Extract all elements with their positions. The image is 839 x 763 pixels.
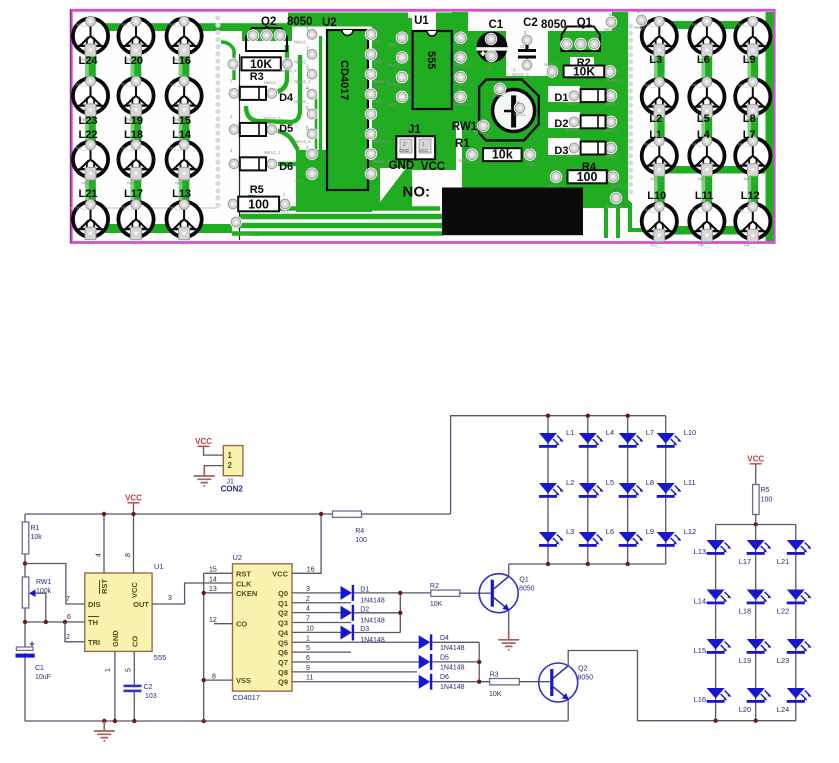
wire: matrix L1-L12 column lines: [547, 416, 549, 564]
svg-text:CLK: CLK: [236, 579, 252, 588]
svg-text:4: 4: [396, 89, 399, 95]
svg-text:1N4148: 1N4148: [360, 617, 385, 624]
svg-text:Q2: Q2: [261, 16, 276, 28]
wire: TH line: [25, 621, 85, 623]
svg-text:10: 10: [376, 146, 382, 152]
svg-text:NetC1: NetC1: [514, 112, 527, 117]
wire: D3 out: [354, 632, 400, 634]
power VCC symbol (R5): [747, 455, 764, 468]
wire: PCB bottom horizontal green trace right grid: [650, 226, 770, 235]
wire: D2 out: [354, 612, 400, 614]
node: matrix top rail junctions: [546, 414, 550, 418]
wire: right matrix anode rail: [716, 524, 796, 526]
svg-text:NetU2_: NetU2_: [294, 99, 309, 104]
svg-text:8050: 8050: [578, 675, 594, 682]
pad U1 pin 6: [454, 71, 466, 83]
svg-text:2: 2: [66, 634, 70, 641]
svg-text:D6: D6: [279, 161, 293, 173]
svg-text:2: 2: [396, 49, 399, 55]
svg-text:L21: L21: [79, 188, 98, 200]
svg-text:NetU2_5: NetU2_5: [264, 116, 281, 121]
resistor R1 10k: [22, 522, 29, 554]
IC U2 CD4017: [233, 564, 293, 691]
resistor R2 10K: [431, 590, 460, 596]
svg-text:R5: R5: [761, 487, 770, 494]
pad U2 pin 1: [306, 28, 318, 40]
svg-text:NetU2_3: NetU2_3: [294, 79, 311, 84]
pad NetR4_2 lower: [610, 192, 622, 204]
LED L24 (PCB footprint): [73, 16, 108, 62]
wire: U2 Q7 pin6: [292, 661, 419, 663]
svg-text:6: 6: [306, 126, 309, 132]
diode D3 (PCB): [568, 142, 580, 154]
wire: U2 Q2 pin4: [292, 612, 341, 614]
svg-text:1: 1: [306, 635, 310, 642]
connector J1 CON2: [223, 446, 243, 476]
svg-text:D5: D5: [279, 123, 293, 135]
wire: PCB green column trace R-grid col1: [654, 25, 665, 221]
svg-text:1: 1: [105, 668, 112, 672]
svg-text:L4: L4: [697, 129, 711, 141]
svg-text:9: 9: [306, 665, 310, 672]
wire: matrix L13-L24 column lines: [715, 525, 717, 721]
svg-text:GND: GND: [373, 59, 382, 64]
svg-text:L18: L18: [124, 129, 143, 141]
svg-text:NetU1_5: NetU1_5: [512, 72, 529, 77]
wire: VCC top rail: [25, 513, 451, 515]
svg-text:Q4: Q4: [278, 628, 289, 637]
wire: R5 to matrix top rail: [755, 515, 757, 525]
LED L16 (PCB footprint): [167, 16, 202, 62]
LED L8: [619, 483, 644, 498]
svg-text:NetC1: NetC1: [492, 93, 505, 98]
power VCC symbol (J1): [195, 437, 212, 450]
svg-text:L16: L16: [172, 55, 191, 67]
svg-text:NetR4_2: NetR4_2: [610, 184, 627, 189]
via dotted column between middle and right grid: [628, 23, 633, 28]
svg-text:6: 6: [67, 614, 71, 621]
svg-text:VCC: VCC: [421, 161, 445, 173]
wire: PCB green column trace L-grid col2: [131, 27, 142, 219]
LED L19 (PCB footprint): [118, 76, 153, 122]
svg-text:TH: TH: [88, 618, 98, 627]
pad U2 pin 9: [365, 168, 377, 180]
svg-text:L23: L23: [777, 656, 790, 665]
svg-text:L16: L16: [694, 695, 707, 704]
svg-text:10K: 10K: [489, 691, 502, 698]
svg-text:4: 4: [306, 86, 309, 92]
svg-text:L17: L17: [124, 188, 143, 200]
svg-text:NetD_2: NetD_2: [605, 154, 620, 159]
wire: R3 to Q2 base: [519, 681, 550, 683]
svg-text:R3: R3: [490, 672, 499, 679]
wire: green traces between diodes and U2: [268, 45, 287, 93]
svg-text:GND: GND: [399, 148, 409, 153]
wire: RST pin4 riser: [103, 514, 105, 573]
transistor Q2 8050: [539, 663, 578, 702]
via dotted column between left grid and middle: [215, 15, 220, 20]
wire: PCB green column trace L-grid col1: [85, 27, 96, 219]
svg-text:D4: D4: [440, 635, 449, 642]
svg-text:100: 100: [761, 497, 773, 504]
pad U2 pin 14: [365, 68, 377, 80]
svg-text:5: 5: [306, 645, 310, 652]
resistor R5 100: [755, 467, 757, 485]
wire VCC to J1 pin1: [204, 450, 224, 456]
wire: Q2 collector to right matrix cathode rail: [568, 651, 796, 721]
svg-text:1N4148: 1N4148: [440, 664, 465, 671]
diode D5 (PCB): [228, 123, 240, 135]
LED L18 (PCB footprint): [118, 140, 153, 186]
copper plane: U2 pads/traces region: [372, 18, 412, 210]
svg-text:11: 11: [376, 126, 381, 132]
svg-text:15: 15: [376, 46, 382, 52]
svg-text:L9: L9: [743, 54, 756, 66]
svg-text:NetD_2: NetD_2: [605, 128, 620, 133]
svg-text:Q0: Q0: [278, 589, 288, 598]
svg-text:NetU2_1: NetU2_1: [264, 150, 281, 155]
svg-text:5: 5: [126, 668, 133, 672]
LED L3 (PCB footprint): [642, 16, 677, 62]
svg-text:L13: L13: [172, 188, 191, 200]
svg-text:L3: L3: [649, 54, 662, 66]
black redacted rectangle: [442, 188, 583, 236]
wire: D6 out to R3: [432, 681, 489, 683]
svg-text:U2: U2: [233, 553, 243, 562]
LED L7: [619, 433, 644, 448]
svg-text:D6: D6: [440, 674, 449, 681]
svg-text:CO: CO: [131, 636, 140, 647]
svg-text:L14: L14: [172, 129, 192, 141]
svg-text:8: 8: [125, 553, 132, 557]
copper plane: top strip above U2: [288, 13, 408, 27]
svg-text:L24: L24: [777, 705, 790, 714]
diode D4 (PCB): [228, 87, 240, 99]
pad U2 pin 6: [306, 128, 318, 140]
svg-text:100: 100: [577, 170, 598, 184]
pad U1 pin 1: [396, 32, 408, 44]
LED L5 (PCB footprint): [689, 77, 724, 123]
white island Q1 label: [556, 14, 608, 30]
LED L17: [747, 540, 772, 555]
diode D6 (PCB): [228, 158, 240, 170]
LED L2 (PCB footprint): [642, 77, 677, 123]
svg-text:7: 7: [456, 49, 459, 55]
svg-text:7: 7: [66, 596, 70, 603]
svg-text:100k: 100k: [36, 588, 52, 595]
resistor R3 (PCB) 10K: [227, 58, 239, 70]
wire: RW1 wiper to TH node: [36, 593, 46, 622]
svg-text:CD4017: CD4017: [338, 60, 350, 100]
svg-text:VCC: VCC: [281, 209, 290, 214]
svg-text:6: 6: [456, 69, 459, 75]
pad U2 pin 11: [365, 128, 377, 140]
wire: Q1 collector rail (matrix bottom): [509, 563, 666, 565]
diode D6 1N4148: [419, 674, 433, 690]
LED L8 (PCB footprint): [735, 77, 770, 123]
svg-text:CD4017: CD4017: [233, 693, 261, 702]
svg-text:3: 3: [396, 69, 399, 75]
svg-text:8: 8: [212, 673, 216, 680]
wire J1 pin2 to ground: [204, 466, 223, 476]
svg-text:L8: L8: [646, 478, 654, 487]
wire: PCB top horizontal green trace (left grid to Q2): [84, 23, 290, 31]
transistor Q2 (PCB footprint): [242, 24, 292, 41]
copper plane: Q1 R2 D1-D3 R4 column: [545, 12, 628, 208]
wire: PCB green column trace R-grid col3: [748, 25, 759, 221]
svg-text:L13: L13: [694, 547, 707, 556]
svg-text:7: 7: [306, 146, 309, 152]
svg-text:VSS: VSS: [236, 676, 251, 685]
diode D2 1N4148: [341, 605, 355, 621]
svg-text:10k: 10k: [31, 534, 43, 541]
LED L15 (PCB footprint): [167, 76, 202, 122]
svg-text:U2: U2: [322, 17, 337, 29]
wire: bottom fan traces to bottom bus: [240, 214, 443, 220]
transistor Q1 8050: [479, 574, 518, 613]
wire: U2 Q9 pin11: [292, 681, 419, 683]
svg-text:NetU2_: NetU2_: [566, 101, 581, 106]
diode D2 (PCB): [568, 116, 580, 128]
svg-text:Q1: Q1: [278, 599, 288, 608]
svg-text:R3: R3: [250, 71, 264, 83]
copper plane: J1 region: [384, 108, 456, 170]
svg-text:D4: D4: [279, 92, 294, 104]
resistor R3 10K: [490, 679, 520, 685]
node: R1 bottom junction: [23, 561, 27, 565]
svg-text:4: 4: [306, 606, 310, 613]
LED L22 (PCB footprint): [73, 140, 108, 186]
svg-text:U1: U1: [414, 15, 429, 27]
svg-text:10K: 10K: [250, 57, 272, 71]
pad U2 pin 8: [306, 168, 318, 180]
svg-text:R2: R2: [430, 583, 439, 590]
wire: GND pin1: [114, 651, 116, 721]
copper plane: top strip right of U1 label: [436, 13, 468, 31]
svg-text:C2: C2: [144, 684, 153, 691]
pad U1 pin 3: [396, 71, 408, 83]
wire: D4 out: [432, 641, 479, 643]
svg-text:8: 8: [306, 166, 309, 172]
wire: U2 Q4 pin10: [292, 631, 341, 633]
svg-text:VCC: VCC: [455, 43, 464, 48]
svg-text:100: 100: [248, 198, 269, 212]
LED L20 (PCB footprint): [118, 16, 153, 62]
LED L21: [787, 540, 812, 555]
svg-text:VCC: VCC: [419, 148, 428, 153]
svg-text:Q2: Q2: [578, 666, 587, 673]
svg-text:Q1: Q1: [519, 577, 528, 584]
pad U1 pin 8: [454, 32, 466, 44]
wire: U2 CKEN pin13: [204, 592, 233, 594]
diode D1 (PCB): [568, 89, 580, 101]
capacitor C1 10uF electrolytic: [30, 642, 35, 647]
svg-text:L7: L7: [646, 428, 654, 437]
potentiometer RW1 (PCB footprint): [479, 80, 539, 141]
wire: D4-D6 merge vertical: [478, 642, 480, 681]
LED L14 (PCB footprint): [167, 140, 202, 186]
op-amp/timer U1 555: [85, 573, 152, 651]
node: right matrix bottom junctions: [713, 719, 717, 723]
LED L13 (PCB footprint): [167, 199, 202, 245]
svg-text:CON2: CON2: [221, 485, 244, 494]
wire: D1 out to R2: [354, 592, 431, 594]
svg-text:L24: L24: [79, 55, 99, 67]
LED L19: [747, 639, 772, 654]
svg-text:DIS: DIS: [88, 600, 101, 609]
wire: vertical traces left of U2 body: [319, 36, 322, 185]
pad U2 pin 16: [365, 28, 377, 40]
svg-text:Q2: Q2: [278, 609, 288, 618]
LED L6 (PCB footprint): [689, 16, 724, 62]
svg-text:NetU2_: NetU2_: [294, 39, 309, 44]
svg-text:NetU2_: NetU2_: [566, 127, 581, 132]
svg-text:L20: L20: [739, 705, 752, 714]
svg-text:2: 2: [306, 46, 309, 52]
IC U1 555 (PCB footprint): [413, 31, 452, 109]
wire: D5 out: [432, 661, 479, 663]
LED L5: [579, 483, 604, 498]
svg-text:R1: R1: [455, 138, 470, 150]
svg-text:L1: L1: [649, 129, 662, 141]
svg-text:GND: GND: [389, 160, 415, 172]
svg-text:L12: L12: [741, 190, 760, 202]
LED L9 (PCB footprint): [735, 16, 770, 62]
svg-text:NetR1_2: NetR1_2: [455, 62, 472, 67]
pad U1 pin 5: [454, 91, 466, 103]
svg-text:CKEN: CKEN: [236, 589, 257, 598]
svg-text:2: 2: [228, 461, 233, 470]
ground symbol (Q1): [498, 630, 519, 650]
svg-text:4: 4: [96, 553, 103, 557]
svg-text:RW1: RW1: [452, 121, 478, 133]
LED L22: [787, 590, 812, 605]
potentiometer RW1 100k: [22, 577, 29, 608]
node: TH junctions: [23, 620, 27, 624]
resistor R2 (PCB) 10K: [546, 65, 558, 77]
diode D5 1N4148: [419, 654, 433, 670]
wire: U2 VCC pin16 riser: [292, 514, 321, 573]
svg-text:NetU2_5: NetU2_5: [294, 139, 311, 144]
svg-text:VCC: VCC: [388, 102, 397, 107]
svg-text:C1: C1: [489, 19, 504, 31]
svg-text:Q5: Q5: [278, 638, 288, 647]
PCB board magenta border frame: [71, 10, 774, 242]
svg-text:R1: R1: [31, 525, 40, 532]
svg-text:GND: GND: [294, 179, 303, 184]
LED L23 (PCB footprint): [73, 76, 108, 122]
svg-text:10K: 10K: [573, 65, 595, 79]
wire: VCC pin8 riser: [133, 514, 135, 573]
svg-text:NetR1_1: NetR1_1: [458, 158, 475, 163]
svg-text:NetU1_: NetU1_: [388, 82, 403, 87]
svg-text:L10: L10: [684, 428, 697, 437]
svg-text:GND: GND: [111, 630, 120, 647]
svg-text:1: 1: [228, 451, 233, 460]
wire: U2 Q8 pin9: [292, 671, 417, 673]
PCB left edge dark line: [70, 10, 72, 244]
svg-text:VCC: VCC: [373, 39, 382, 44]
LED L6: [579, 532, 604, 547]
white strip behind top labels C1 C2 8050 Q1: [468, 12, 612, 31]
svg-text:L5: L5: [697, 113, 710, 125]
LED L12 (PCB footprint): [735, 202, 770, 248]
svg-text:L11: L11: [695, 190, 713, 202]
wire: D1-D3 merge vertical: [399, 593, 401, 633]
svg-text:L2: L2: [566, 478, 574, 487]
LED L15: [707, 639, 732, 654]
LED L4: [579, 433, 604, 448]
wire: Q1 collector riser: [508, 564, 510, 577]
LED L10 (PCB footprint): [642, 202, 677, 248]
svg-text:L17: L17: [739, 557, 752, 566]
LED L11 (PCB footprint): [689, 202, 724, 248]
ground symbol (main): [94, 721, 115, 741]
wire: traces fanning right of black rect: [586, 188, 606, 238]
copper plane: U1-to-C1 region: [452, 12, 478, 122]
svg-text:RST: RST: [100, 579, 109, 594]
svg-text:1N4148: 1N4148: [440, 684, 465, 691]
LED L2: [539, 483, 564, 498]
svg-text:9: 9: [376, 166, 379, 172]
LED L10: [657, 433, 682, 448]
svg-text:TRI: TRI: [88, 638, 100, 647]
wire: PCB mid horizontal green trace right grid row3: [655, 166, 765, 174]
wire: U2 Q0 pin3: [292, 592, 341, 594]
svg-text:100: 100: [355, 537, 367, 544]
PCB board background: [70, 9, 776, 244]
LED L23: [787, 639, 812, 654]
LED L13: [707, 540, 732, 555]
svg-text:L9: L9: [646, 527, 654, 536]
svg-text:1N4148: 1N4148: [360, 637, 385, 644]
node: bottom rail junctions: [102, 719, 106, 723]
wire: U2 VSS pin8: [204, 679, 233, 681]
wire: TH to TRI link: [65, 622, 85, 642]
wire VCC drop to rail: [133, 506, 135, 514]
svg-text:L23: L23: [79, 115, 98, 127]
svg-text:555: 555: [154, 653, 167, 662]
svg-text:1: 1: [396, 30, 399, 36]
svg-text:1: 1: [306, 26, 309, 32]
svg-text:L10: L10: [647, 190, 666, 202]
svg-text:R4: R4: [355, 528, 364, 535]
silkscreen thin line middle column: [239, 54, 241, 240]
wire: PCB thin gray line across left grid: [69, 207, 217, 209]
svg-text:L1: L1: [566, 428, 574, 437]
svg-text:10uF: 10uF: [35, 674, 51, 681]
wire: left rail down (R1/RW1/C1 branch): [24, 514, 26, 721]
svg-text:10k: 10k: [492, 148, 513, 162]
svg-text:NetU2_: NetU2_: [566, 153, 581, 158]
IC U2 CD4017 (PCB footprint): [327, 30, 368, 190]
svg-text:103: 103: [145, 693, 157, 700]
pad U1 pin 4: [396, 91, 408, 103]
svg-text:L22: L22: [777, 607, 790, 616]
svg-text:13: 13: [209, 586, 217, 593]
wire: U2 RST pin15: [204, 572, 233, 574]
svg-text:L6: L6: [697, 54, 710, 66]
svg-text:J1: J1: [408, 124, 421, 136]
wire: OUT pin3 to U2 CLK: [152, 583, 232, 604]
pad U1 pin 7: [454, 51, 466, 63]
svg-text:12: 12: [376, 106, 382, 112]
wire: PCB green trace right board edge: [766, 12, 774, 241]
svg-text:Q7: Q7: [278, 658, 288, 667]
wire: U2 CO pin12 stub: [214, 623, 233, 625]
svg-text:CO: CO: [236, 620, 247, 629]
svg-text:12: 12: [209, 617, 217, 624]
